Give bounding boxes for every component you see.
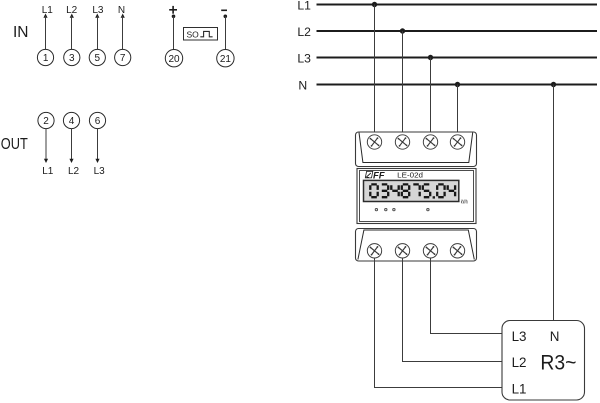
digit 8 — [402, 184, 409, 197]
terminal 5 circle — [89, 49, 105, 65]
wire meter out L3 to load — [431, 258, 509, 334]
terminal 6 arrow down — [95, 159, 99, 163]
terminal 6 circle — [89, 112, 105, 128]
svg-text:N: N — [550, 329, 560, 344]
terminal 21 circle — [217, 50, 234, 67]
wire terminal 20 — [173, 16, 175, 49]
svg-text:7: 7 — [120, 53, 126, 64]
svg-text:L3: L3 — [512, 329, 527, 344]
meter LE-02d body — [357, 169, 476, 224]
terminal 4 circle — [63, 112, 79, 128]
terminal 3 circle — [64, 49, 80, 65]
wire L2 to meter — [402, 31, 404, 135]
LED indicator pulse — [427, 208, 429, 210]
wire N to load R3 — [553, 85, 555, 328]
wire terminal 5 — [97, 16, 99, 49]
svg-text:L1: L1 — [297, 0, 311, 13]
screw terminal 2 bottom — [367, 244, 381, 258]
svg-text:4: 4 — [69, 116, 75, 127]
digit 4 second — [448, 185, 455, 196]
terminal 7 arrow up — [121, 14, 125, 18]
wire terminal 4 — [71, 129, 73, 161]
meter bottom cover trapezoid — [358, 230, 474, 260]
wire L2 bus — [317, 30, 598, 32]
svg-text:2: 2 — [43, 116, 49, 127]
wire terminal 1 — [45, 16, 47, 49]
terminal 20 circle — [165, 50, 182, 67]
wire terminal 21 — [225, 16, 227, 49]
LED indicator 3 — [393, 208, 395, 210]
screw terminal 5 top — [423, 135, 437, 149]
svg-text:L1: L1 — [42, 166, 54, 177]
screw terminal 3 top — [395, 135, 409, 149]
svg-text:L1: L1 — [512, 382, 527, 397]
meter body inner frame — [360, 171, 474, 222]
digit 5 — [423, 184, 430, 197]
svg-text:L2: L2 — [68, 166, 80, 177]
svg-text:L3: L3 — [94, 166, 106, 177]
digit 0 second — [437, 184, 444, 197]
svg-text:L2: L2 — [297, 25, 311, 39]
pulse symbol — [200, 31, 212, 36]
label minus — [221, 9, 227, 11]
terminal 3 arrow up — [70, 14, 74, 18]
svg-text:SO: SO — [187, 29, 200, 39]
label plus — [169, 6, 177, 14]
terminal 7 circle — [115, 49, 131, 65]
F&F logo — [365, 170, 385, 181]
screw terminal 6 bottom — [423, 244, 437, 258]
terminal 5 arrow up — [95, 14, 99, 18]
LED indicator 2 — [385, 208, 387, 210]
wire N bus — [317, 84, 598, 86]
decimal point — [433, 196, 435, 198]
svg-text:L3: L3 — [297, 52, 311, 66]
digit 3 — [382, 184, 388, 197]
wire terminal 6 — [97, 129, 99, 161]
svg-text:N: N — [298, 79, 307, 93]
svg-text:1: 1 — [43, 53, 49, 64]
svg-text:LE-02d: LE-02d — [397, 171, 423, 180]
svg-text:20: 20 — [168, 54, 180, 65]
wire L1 bus — [317, 4, 598, 6]
terminal 4 arrow down — [69, 159, 73, 163]
meter LE-02d bottom terminal block — [356, 229, 477, 262]
screw terminal 8 bottom — [450, 244, 464, 258]
junction L2 feed — [400, 28, 405, 33]
svg-text:OUT: OUT — [1, 136, 28, 153]
wire meter out L2 to load — [403, 258, 509, 362]
SO pulse output box — [184, 28, 218, 41]
wire N to meter — [457, 85, 459, 136]
load R3~ box — [502, 321, 585, 401]
terminal 2 circle — [38, 112, 54, 128]
junction L1 feed — [372, 2, 377, 7]
svg-text:N: N — [118, 5, 125, 16]
junction L3 feed — [428, 55, 433, 60]
wire L3 bus — [317, 57, 598, 59]
screw terminal 7 top — [450, 135, 464, 149]
screw terminal 1 top — [367, 135, 381, 149]
wire meter out L1 to load — [375, 258, 509, 388]
digit 0 — [370, 184, 377, 197]
svg-text:6: 6 — [95, 116, 101, 127]
wire terminal 3 — [71, 16, 73, 49]
svg-text:L3: L3 — [92, 5, 104, 16]
node dot minus — [224, 14, 228, 18]
wire terminal 7 — [122, 16, 124, 49]
junction N to load — [551, 82, 556, 87]
svg-text:L1: L1 — [42, 5, 54, 16]
wire L3 to meter — [430, 58, 432, 136]
digit 4 — [391, 185, 398, 196]
meter top cover trapezoid — [359, 133, 473, 163]
svg-text:kWh: kWh — [461, 199, 468, 205]
svg-text:21: 21 — [220, 54, 232, 65]
LCD digits 034875.04 — [370, 184, 455, 198]
wire terminal 2 — [45, 129, 47, 161]
meter LE-02d top terminal block — [356, 132, 477, 167]
screw terminal 4 bottom — [395, 244, 409, 258]
junction N feed — [455, 82, 460, 87]
svg-text:R3~: R3~ — [540, 351, 576, 375]
digit 7 — [413, 184, 419, 196]
svg-text:IN: IN — [13, 24, 29, 41]
terminal 1 circle — [37, 49, 53, 65]
svg-text:3: 3 — [69, 53, 75, 64]
LED indicator 1 — [375, 208, 377, 210]
terminal 1 arrow up — [43, 14, 47, 18]
terminal 2 arrow down — [44, 159, 48, 163]
node dot plus — [172, 14, 176, 18]
wire L1 to meter — [374, 5, 376, 136]
svg-text:L2: L2 — [512, 355, 527, 370]
LCD display — [364, 180, 459, 201]
svg-text:5: 5 — [95, 53, 101, 64]
